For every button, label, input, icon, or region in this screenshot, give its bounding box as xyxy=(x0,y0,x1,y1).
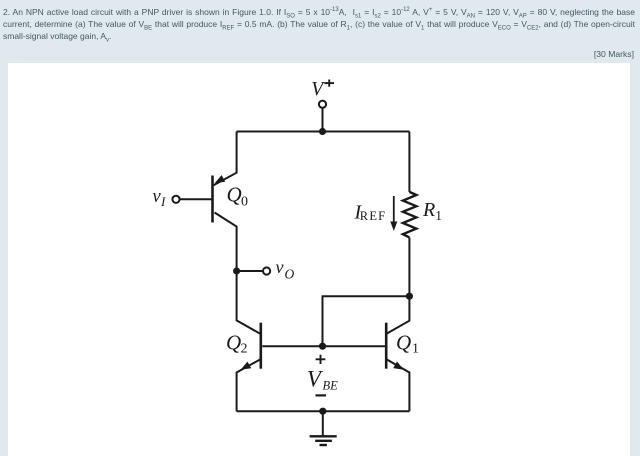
svg-text:v: v xyxy=(276,257,284,277)
svg-text:R: R xyxy=(422,199,435,221)
svg-text:Q: Q xyxy=(396,331,411,355)
svg-text:REF: REF xyxy=(360,209,387,223)
svg-text:V: V xyxy=(307,367,324,392)
svg-text:1: 1 xyxy=(435,208,442,223)
svg-text:O: O xyxy=(285,267,295,282)
svg-text:BE: BE xyxy=(323,378,339,392)
svg-text:Q: Q xyxy=(226,331,241,355)
svg-text:2: 2 xyxy=(241,341,248,356)
svg-text:I: I xyxy=(160,194,166,209)
svg-text:Q: Q xyxy=(227,183,242,207)
svg-text:1: 1 xyxy=(412,341,419,356)
svg-text:V: V xyxy=(311,79,325,100)
svg-text:0: 0 xyxy=(241,194,248,209)
